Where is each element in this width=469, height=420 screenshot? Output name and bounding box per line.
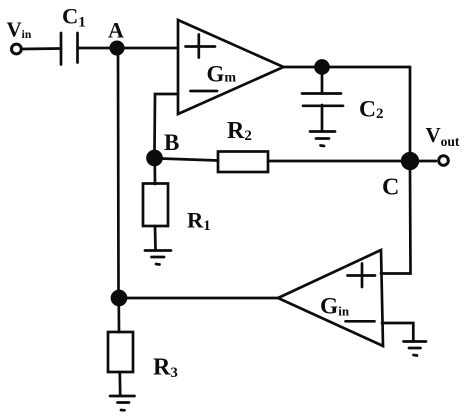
ground at Gin minus	[404, 342, 427, 356]
node A	[111, 42, 123, 54]
svg-text:R2: R2	[227, 118, 252, 144]
node C	[402, 153, 418, 169]
wire R1 to ground	[154, 226, 157, 250]
wire node A to op-amp plus input	[123, 47, 178, 50]
wire R2 to node C	[268, 160, 403, 163]
bottom node junction	[112, 291, 126, 305]
wire Vin to C1	[22, 47, 62, 50]
resistor R1	[143, 184, 168, 227]
terminal Vin	[12, 44, 22, 54]
wire R3 to ground	[118, 372, 121, 395]
svg-text:Gm: Gm	[207, 61, 237, 86]
capacitor C2	[302, 73, 343, 131]
ground below R1	[145, 251, 171, 265]
wire node B down to R1	[153, 164, 156, 184]
svg-text:Vin: Vin	[7, 18, 32, 42]
resistor R2	[218, 152, 268, 173]
wire node C down to Gin plus input	[381, 168, 411, 274]
op-amp U2 Gin triangle	[278, 250, 383, 346]
resistor R3	[108, 332, 133, 372]
svg-text:Vout: Vout	[426, 123, 460, 149]
wire Gin minus input to ground	[382, 323, 413, 341]
minus sign Gin input	[346, 320, 375, 323]
wire bottom node to Gin output apex	[126, 297, 278, 300]
wire C1 to node A	[78, 47, 112, 50]
wire Gm output	[284, 66, 317, 69]
ground below C2	[310, 132, 335, 147]
wire junction to right rail	[328, 66, 410, 69]
svg-text:C1: C1	[62, 4, 86, 31]
op-amp U1 Gm triangle	[178, 20, 284, 114]
wire Gm minus input to node B	[155, 94, 179, 153]
node B	[148, 151, 162, 165]
ground below R3	[110, 396, 135, 410]
svg-text:C2: C2	[359, 96, 383, 122]
wire right rail down to node C	[409, 67, 412, 154]
svg-text:B: B	[164, 130, 179, 155]
wire node A down to bottom node	[117, 54, 120, 292]
plus sign Gm input	[186, 35, 216, 58]
svg-text:C: C	[382, 175, 399, 201]
wire node B to R2	[161, 159, 218, 161]
svg-text:A: A	[108, 17, 124, 42]
wire bottom node down to R3	[117, 305, 120, 332]
svg-text:Gin: Gin	[320, 294, 350, 320]
capacitor C1	[61, 33, 78, 65]
terminal Vout	[439, 156, 449, 166]
svg-text:R1: R1	[187, 208, 211, 235]
wire node C to Vout terminal	[417, 160, 436, 163]
svg-text:R3: R3	[153, 355, 178, 382]
plus sign Gin input	[348, 264, 376, 288]
node junction Gm output / C2	[316, 61, 329, 74]
minus sign Gm input	[191, 90, 218, 93]
